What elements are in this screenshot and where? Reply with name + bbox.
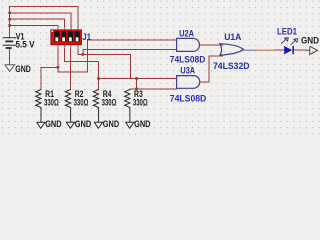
svg-text:GND: GND [103,119,119,130]
svg-text:74LS32D: 74LS32D [213,61,250,72]
svg-text:74LS08D: 74LS08D [170,54,206,65]
svg-text:330Ω: 330Ω [133,98,148,109]
svg-text:GND: GND [75,119,91,130]
svg-text:U2A: U2A [179,28,194,39]
svg-text:U3A: U3A [180,66,195,77]
svg-text:U1A: U1A [224,32,241,43]
svg-text:LED1: LED1 [277,26,298,37]
svg-text:J1: J1 [82,32,91,43]
svg-text:GND: GND [45,119,61,130]
svg-text:5.5 V: 5.5 V [16,39,36,50]
svg-text:330Ω: 330Ω [74,98,89,109]
svg-text:330Ω: 330Ω [102,98,117,109]
svg-text:330Ω: 330Ω [44,98,59,109]
svg-text:74LS08D: 74LS08D [170,93,207,104]
svg-text:GND: GND [301,36,319,47]
svg-text:GND: GND [15,64,31,75]
svg-text:GND: GND [134,119,150,130]
